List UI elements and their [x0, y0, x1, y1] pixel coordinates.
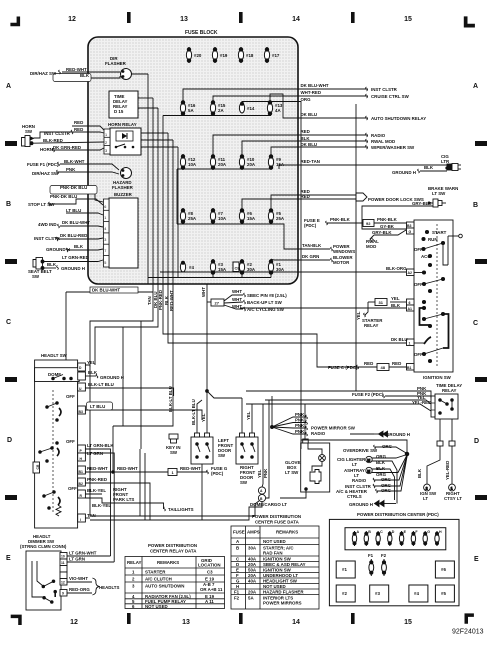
wire dir flasher to bus: [132, 73, 149, 75]
svg-text:A2: A2: [408, 271, 413, 275]
svg-text:40A: 40A: [248, 557, 257, 562]
wire lt blu buzzer pin1: [66, 213, 103, 215]
fuse #14 spare: [239, 102, 244, 113]
fuse #9: [268, 154, 273, 170]
hook 4wd: [58, 224, 60, 228]
svg-text:#20: #20: [194, 53, 202, 58]
pin column: [407, 222, 415, 370]
svg-text:POWER MIRROR SW: POWER MIRROR SW: [311, 426, 356, 431]
fuse #4 spare: [180, 261, 185, 272]
pnk fan 1: [272, 417, 306, 427]
contacts lower: [422, 300, 444, 327]
hook ground h left: [66, 248, 68, 252]
svg-text:13: 13: [182, 619, 190, 626]
svg-text:OFF: OFF: [414, 352, 423, 357]
hook ac cycling: [244, 307, 246, 311]
grid letters: [6, 83, 479, 563]
fuse #15: [210, 100, 215, 116]
svg-text:ORG: ORG: [301, 97, 312, 102]
fuse #6: [239, 208, 244, 224]
svg-text:#3: #3: [375, 591, 380, 596]
wire dk blu-wht bottom: [66, 291, 153, 293]
bracket right: [443, 314, 449, 348]
svg-text:DK BLU: DK BLU: [301, 112, 318, 117]
svg-text:START: START: [432, 230, 447, 235]
hook inst clstr 3: [56, 237, 58, 241]
fuse block bus labels: [92, 287, 287, 312]
row4 bus: [177, 223, 271, 225]
fuse #18: [238, 47, 243, 63]
svg-text:CB: CB: [36, 464, 40, 469]
relay #2: [336, 585, 355, 602]
svg-text:TAN: TAN: [147, 296, 152, 305]
svg-text:CENTER RELAY DATA: CENTER RELAY DATA: [150, 549, 197, 554]
ignition pin and position labels: [407, 224, 452, 380]
svg-text:DK GRN: DK GRN: [302, 254, 319, 259]
wire red pdl 1: [271, 195, 356, 208]
seat belt sw: [33, 258, 56, 270]
svg-text:RED-WHT: RED-WHT: [87, 466, 108, 471]
svg-text:GROUND H: GROUND H: [392, 170, 416, 175]
relay table text: [127, 543, 223, 604]
relay #6: [435, 561, 454, 578]
svg-text:OR A+B 11: OR A+B 11: [200, 587, 223, 592]
relay #1: [336, 561, 355, 578]
pdc fuse F: [411, 531, 415, 546]
svg-text:YEL: YEL: [391, 296, 400, 301]
svg-text:NOT USED: NOT USED: [263, 539, 286, 544]
svg-text:2: 2: [105, 141, 107, 145]
svg-text:20A: 20A: [248, 562, 257, 567]
svg-text:RED: RED: [301, 194, 310, 199]
midfield vertical b: [140, 321, 142, 449]
svg-text:M: M: [367, 469, 370, 473]
svg-text:LT: LT: [423, 496, 428, 501]
pnk fan 2: [272, 423, 306, 428]
svg-text:F2: F2: [381, 553, 387, 558]
svg-text:30A: 30A: [276, 267, 285, 272]
svg-text:B: B: [473, 202, 478, 209]
row2 fuse stubs: [182, 114, 184, 116]
hook rwal: [366, 139, 368, 143]
wire yel-red down: [451, 446, 453, 484]
svg-text:RED: RED: [74, 127, 83, 132]
horn sw symbol: [22, 136, 34, 147]
wire fuse c red: [359, 366, 377, 368]
hook wiper: [366, 145, 368, 149]
row4 fuse stubs: [182, 222, 184, 224]
wire red horn relay pin1: [34, 132, 73, 138]
bus wire pnk-red: [163, 284, 359, 367]
wires to tdr: [246, 391, 431, 398]
svg-text:14: 14: [292, 619, 300, 626]
hook blower motor: [331, 258, 333, 262]
svg-text:E: E: [236, 568, 239, 573]
svg-text:M: M: [367, 458, 370, 462]
svg-text:40A: 40A: [248, 579, 257, 584]
wire gry-blk rwal: [374, 230, 406, 235]
bus vertical 3: [157, 108, 159, 284]
svg-text:PNK-BLK: PNK-BLK: [377, 217, 398, 222]
svg-text:#1: #1: [342, 567, 347, 572]
svg-text:10A: 10A: [188, 162, 197, 167]
wire gry-blk down from brake warn: [362, 206, 433, 229]
svg-text:5A: 5A: [248, 596, 254, 601]
svg-text:3: 3: [104, 238, 106, 242]
svg-text:#19: #19: [220, 53, 228, 58]
wire blk rwal: [242, 141, 368, 154]
cig lighter lamp: [366, 456, 372, 462]
hazard flasher: [112, 168, 134, 191]
svg-text:OFF: OFF: [68, 486, 77, 491]
wire dk blu-wht inst clstr: [183, 89, 368, 100]
svg-text:12: 12: [61, 581, 65, 585]
svg-text:31: 31: [379, 300, 384, 305]
svg-text:15: 15: [404, 16, 412, 23]
hook power windows: [331, 247, 333, 251]
svg-text:7: 7: [104, 249, 106, 253]
svg-text:B: B: [368, 530, 371, 534]
svg-text:OVERDRIVE SW: OVERDRIVE SW: [343, 448, 378, 453]
svg-text:GROUND H: GROUND H: [100, 375, 124, 380]
svg-text:SW: SW: [218, 453, 226, 458]
pin cells: [60, 553, 67, 597]
svg-text:YEL: YEL: [257, 469, 262, 478]
svg-text:48: 48: [381, 365, 386, 370]
wire ashtray blk: [372, 469, 395, 500]
svg-text:RED-WHT: RED-WHT: [66, 67, 87, 72]
svg-text:STOP LT SW: STOP LT SW: [28, 202, 55, 207]
svg-text:C: C: [380, 530, 383, 534]
wire lt grn-red buzzer pin5: [43, 260, 104, 262]
wire dk grn blower: [298, 259, 330, 261]
left dashes: [5, 141, 17, 146]
grid numbers top: [68, 16, 412, 626]
wire horn relay out 2: [141, 139, 173, 141]
sw contacts off2: [39, 442, 59, 463]
svg-text:IGNITION SW: IGNITION SW: [263, 568, 292, 573]
row2 bus: [163, 115, 271, 117]
svg-text:IGNITION SW: IGNITION SW: [423, 375, 452, 380]
dir flasher U1: [105, 56, 132, 80]
right front door sw: [236, 433, 258, 464]
svg-text:A 11: A 11: [205, 599, 214, 604]
svg-text:C3: C3: [207, 570, 213, 575]
svg-text:RED-WHT: RED-WHT: [169, 290, 174, 311]
pin1 arc: [424, 337, 431, 344]
fuse #5: [268, 208, 273, 224]
svg-text:BLK: BLK: [424, 165, 434, 170]
svg-text:HORN RELAY: HORN RELAY: [108, 122, 137, 127]
svg-text:POWER DISTRIBUTION: POWER DISTRIBUTION: [148, 543, 197, 548]
dome switch contacts: [52, 375, 73, 380]
wire lt grn pin h: [85, 453, 114, 562]
svg-text:12: 12: [70, 619, 78, 626]
svg-text:RED: RED: [301, 129, 310, 134]
svg-text:11: 11: [61, 561, 65, 565]
relay table row6 text: [233, 514, 306, 606]
pdc fuse E: [399, 531, 403, 546]
svg-text:YEL-RED: YEL-RED: [412, 400, 431, 405]
hook dir/haz 1: [59, 70, 61, 74]
pdc fuse D: [388, 531, 392, 546]
hook inst clstr org: [373, 484, 375, 488]
relay coil+diode inside: [116, 131, 133, 141]
svg-text:10: 10: [61, 555, 65, 559]
svg-text:RADIO: RADIO: [371, 133, 386, 138]
wire red-tan cig ltr: [279, 165, 447, 169]
wire blk ground buzzer pin7: [68, 249, 103, 250]
svg-text:20A: 20A: [248, 573, 257, 578]
hook backup: [244, 300, 246, 304]
svg-text:BLK: BLK: [376, 466, 386, 471]
top ticks: [127, 12, 131, 23]
wire horn relay out 1: [141, 132, 168, 134]
svg-text:HORN: HORN: [40, 147, 53, 152]
wire glove up: [304, 404, 306, 439]
ground h arrow: [350, 433, 374, 435]
svg-text:UNDERHOOD LT: UNDERHOOD LT: [263, 573, 298, 578]
svg-text:12: 12: [68, 16, 76, 23]
svg-text:#17: #17: [272, 53, 280, 58]
fuse #13: [267, 100, 272, 116]
svg-text:PNK: PNK: [295, 418, 305, 423]
svg-text:A: A: [473, 83, 478, 90]
off contact bottom: [422, 352, 431, 362]
svg-text:PNK: PNK: [295, 429, 305, 434]
fuse #3: [210, 259, 215, 275]
svg-text:WHT: WHT: [232, 304, 242, 309]
svg-text:ORG: ORG: [381, 488, 392, 493]
svg-text:DK BLU-WHT: DK BLU-WHT: [301, 83, 329, 88]
svg-text:LT GRN: LT GRN: [87, 451, 103, 456]
wire red to B1: [389, 366, 406, 368]
svg-text:PNK-RED: PNK-RED: [158, 290, 163, 310]
svg-text:HEADLIGHT SW: HEADLIGHT SW: [263, 579, 298, 584]
svg-text:IGNITION SW: IGNITION SW: [263, 557, 292, 562]
svg-text:RELAY: RELAY: [442, 388, 457, 393]
wire dk grn from fuse 1: [271, 259, 298, 260]
pdc fuse F2: [382, 559, 387, 576]
svg-text:YEL-RED: YEL-RED: [445, 461, 450, 480]
dimmer labels: [20, 534, 119, 596]
wire lt blu pin b3: [85, 410, 202, 420]
wire blk-lt blu pin u: [85, 388, 173, 396]
wht wire ac cycling: [224, 305, 243, 309]
svg-text:50A: 50A: [248, 568, 257, 573]
svg-text:1: 1: [451, 486, 453, 490]
wire pnk-red pin b2: [85, 483, 150, 520]
wire wht-red cruise: [213, 96, 368, 100]
fuse #16: [180, 100, 185, 116]
svg-text:GROUND H: GROUND H: [349, 502, 373, 507]
pnk feed vertical: [271, 396, 273, 427]
svg-text:14: 14: [292, 16, 300, 23]
svg-text:27: 27: [215, 301, 220, 306]
svg-text:20A: 20A: [247, 162, 256, 167]
fuse table text: [132, 604, 168, 609]
pnk fan 3: [272, 427, 306, 428]
dimmer internal wires: [32, 561, 44, 597]
svg-text:D: D: [474, 438, 479, 445]
pdc fuse C: [376, 531, 380, 546]
bus vertical 2: [152, 98, 154, 284]
wire pnk-dk blu buzzer pin6: [60, 190, 103, 202]
dome cargo circle B: [258, 494, 265, 501]
svg-text:A: A: [357, 530, 360, 534]
svg-text:30A: 30A: [248, 546, 257, 551]
pdc fuse G: [423, 531, 427, 546]
wires up from lfds: [197, 400, 202, 433]
dimmer box: [26, 551, 61, 610]
svg-text:H: H: [236, 584, 239, 589]
svg-text:RED: RED: [392, 361, 401, 366]
starter relay and fuse c labels: [328, 266, 408, 370]
rheostat zigzag: [56, 505, 61, 516]
wire dk blu wiper: [271, 147, 368, 154]
bus wire tan: [90, 284, 153, 516]
svg-text:LT: LT: [352, 462, 357, 467]
hook inst clstr left: [71, 130, 73, 134]
svg-text:PNK: PNK: [295, 412, 305, 417]
svg-text:CTSY LT: CTSY LT: [444, 496, 462, 501]
svg-text:SBEC PIN #8 (2.5L): SBEC PIN #8 (2.5L): [247, 293, 287, 298]
hook stop lt: [49, 202, 51, 206]
svg-text:OFF: OFF: [414, 247, 423, 252]
dome cargo circle A: [258, 487, 265, 494]
wire ac heater org: [377, 457, 407, 492]
svg-text:4A: 4A: [275, 108, 281, 113]
svg-text:RWAL MOD: RWAL MOD: [371, 139, 395, 144]
svg-text:15A: 15A: [218, 267, 227, 272]
bottom ticks: [127, 613, 131, 624]
svg-text:BLK: BLK: [301, 136, 311, 141]
svg-text:BLK-LT BLU: BLK-LT BLU: [191, 399, 196, 425]
svg-text:D: D: [7, 437, 12, 444]
svg-text:NOT USED: NOT USED: [263, 584, 286, 589]
svg-text:RUN: RUN: [428, 237, 438, 242]
svg-text:15: 15: [404, 619, 412, 626]
svg-text:PNK: PNK: [295, 423, 305, 428]
svg-text:CENTER FUSE DATA: CENTER FUSE DATA: [255, 520, 300, 525]
svg-text:DK BLU: DK BLU: [391, 337, 408, 342]
svg-text:VIO-WHT: VIO-WHT: [69, 576, 88, 581]
connector tabs: [437, 441, 443, 446]
wire lt grn-blk pin p: [85, 449, 110, 556]
pdc fuse H: [435, 531, 439, 546]
svg-text:ACC: ACC: [421, 254, 431, 259]
svg-text:DK BLU-WHT: DK BLU-WHT: [92, 288, 120, 293]
svg-text:DIR/HAZ SW: DIR/HAZ SW: [32, 171, 59, 176]
svg-text:92F24013: 92F24013: [452, 629, 484, 636]
key in sw connector: [169, 434, 178, 443]
wire pin1: [414, 342, 424, 344]
svg-text:AMPS: AMPS: [247, 530, 260, 535]
hook ground cig: [418, 169, 420, 173]
hook auto shutdown: [366, 116, 368, 120]
wires down from tdr: [439, 419, 441, 441]
svg-text:ORG: ORG: [376, 454, 387, 459]
svg-text:BLK-LT BLU: BLK-LT BLU: [168, 386, 173, 412]
svg-text:NOT USED: NOT USED: [145, 604, 168, 609]
svg-text:RED-TAN: RED-TAN: [301, 159, 320, 164]
svg-text:DOME: DOME: [48, 372, 61, 377]
hook fuse g: [207, 470, 209, 474]
svg-text:BUZZER: BUZZER: [114, 192, 133, 197]
svg-text:YEL: YEL: [87, 360, 96, 365]
wire red inst clstr: [72, 126, 104, 130]
pnk junction: [271, 426, 274, 429]
wire blk-yel taillights: [85, 498, 163, 509]
svg-text:RED-ORG: RED-ORG: [69, 587, 90, 592]
fuse #2: [239, 259, 244, 275]
arm lower: [424, 314, 443, 319]
glove box sw: [280, 439, 330, 498]
feed circle: [448, 235, 459, 237]
bus vertical 7: [177, 147, 179, 278]
svg-text:FUSE: FUSE: [233, 530, 245, 535]
svg-text:(PDC): (PDC): [304, 223, 317, 228]
svg-text:DK GRN-RED: DK GRN-RED: [53, 145, 81, 150]
svg-text:GRY-BLK: GRY-BLK: [412, 201, 432, 206]
wire vio-wht: [67, 581, 92, 583]
right dashes: [475, 141, 487, 146]
svg-text:F2: F2: [234, 596, 240, 601]
pdc fuse F1: [369, 559, 374, 576]
svg-text:POWER MIRRORS: POWER MIRRORS: [263, 601, 302, 606]
svg-text:25A: 25A: [188, 216, 197, 221]
headlt sw outer box: [35, 360, 78, 528]
svg-text:HAZARD FLASHER: HAZARD FLASHER: [263, 590, 304, 595]
right ctsy lamp: [449, 484, 456, 491]
svg-text:FUSE C (PDC): FUSE C (PDC): [328, 365, 358, 370]
svg-text:POWER DISTRIBUTION CENTER (PDC: POWER DISTRIBUTION CENTER (PDC): [357, 512, 439, 517]
wire pnk dir/haz: [58, 172, 119, 174]
contacts mid: [422, 271, 444, 293]
svg-text:BACK-UP LT SW: BACK-UP LT SW: [247, 300, 283, 305]
svg-text:RED-WHT: RED-WHT: [180, 466, 201, 471]
svg-text:YEL: YEL: [201, 413, 206, 422]
box 1 fuse g: [168, 469, 177, 476]
midfield vertical a: [122, 327, 124, 426]
relay #5: [435, 585, 454, 602]
svg-text:B3: B3: [79, 410, 83, 414]
yel vertical to dome A: [262, 404, 264, 484]
hook dir/haz 2: [57, 170, 59, 174]
svg-text:TAN: TAN: [87, 513, 96, 518]
svg-text:REMARKS: REMARKS: [276, 530, 298, 535]
box 27: [211, 299, 224, 306]
arm mid: [424, 279, 443, 284]
row3 bus: [177, 168, 271, 170]
svg-text:I: I: [80, 518, 81, 522]
svg-text:92: 92: [366, 221, 371, 226]
svg-text:GROUND H: GROUND H: [386, 432, 410, 437]
svg-text:BLK: BLK: [47, 262, 57, 267]
svg-text:RED: RED: [74, 120, 83, 125]
svg-text:OFF: OFF: [414, 282, 423, 287]
door and dome labels: [166, 386, 300, 507]
hook horn: [53, 148, 55, 152]
svg-text:PARK LTS: PARK LTS: [113, 497, 134, 502]
svg-text:#6: #6: [441, 567, 446, 572]
time delay relay right: [246, 391, 458, 445]
svg-text:4: 4: [104, 227, 106, 231]
wire a2: [414, 272, 424, 274]
svg-text:RELAY: RELAY: [364, 323, 379, 328]
svg-text:SW: SW: [25, 129, 33, 134]
wire pnk-dk blu stop lt sw: [49, 199, 103, 205]
